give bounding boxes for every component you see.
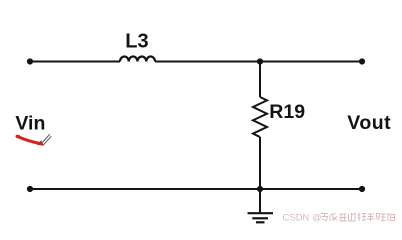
- annotation red underline stroke: [16, 135, 20, 139]
- watermark CJK pseudo-glyphs: [321, 213, 395, 222]
- annotation red arrowhead: [37, 140, 44, 146]
- node dot top-right: [359, 58, 365, 64]
- node dot bottom-right: [359, 186, 365, 192]
- node dot top-left: [27, 58, 33, 64]
- wire resistor lower stub to ground: [259, 137, 261, 213]
- ground symbol: [248, 213, 274, 222]
- wire resistor upper stub: [259, 62, 261, 98]
- wire top-right segment: [155, 61, 362, 63]
- inductor L3 coil: [120, 57, 155, 62]
- resistor R19 zigzag: [253, 97, 267, 137]
- svg-text:L3: L3: [125, 30, 148, 52]
- node dot bottom-left: [27, 186, 33, 192]
- node dot top junction: [257, 58, 263, 64]
- wire bottom rail: [30, 188, 362, 190]
- wire top-left segment: [30, 61, 120, 63]
- svg-text:R19: R19: [269, 101, 305, 123]
- annotation pen tick lines: [41, 134, 52, 145]
- node dot bottom junction: [257, 186, 263, 192]
- svg-text:Vin: Vin: [15, 113, 45, 135]
- svg-text:CSDN @: CSDN @: [283, 213, 322, 224]
- svg-text:Vout: Vout: [347, 112, 391, 134]
